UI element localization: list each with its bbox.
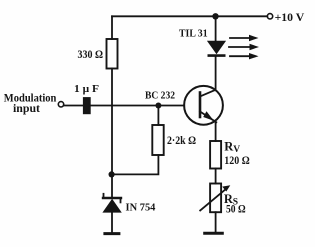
- transistor Q1 BC232: [184, 86, 223, 125]
- wire: RV bottom to RS top: [215, 169, 217, 184]
- svg-text:120 Ω: 120 Ω: [224, 155, 249, 167]
- resistor R1 330 ohm body: [107, 39, 118, 69]
- wire: C1 to Q1 base: [90, 105, 184, 107]
- svg-text:TIL 31: TIL 31: [179, 28, 208, 40]
- wire: Q1 emitter down to RV: [215, 122, 217, 141]
- wire: R2 top to base node: [157, 106, 159, 126]
- wire: LED anode to top rail junction: [215, 16, 217, 41]
- light emission arrow 3: [230, 53, 259, 59]
- wire: Q1 collector up to LED: [215, 56, 217, 90]
- wire: +10V top rail: [112, 15, 267, 17]
- svg-text:input: input: [13, 103, 40, 115]
- variable resistor RS: [200, 184, 230, 213]
- wire: R2 bottom around to zener junction: [112, 155, 159, 174]
- capacitor C1 1uF body: [84, 98, 90, 113]
- svg-text:1 μ F: 1 μ F: [74, 83, 99, 95]
- zener diode D2 1N754: [102, 194, 121, 213]
- LED D1 TIL31: [207, 41, 226, 56]
- junction: base node to R2: [155, 103, 161, 109]
- light emission arrow 2: [229, 44, 259, 50]
- wire: rail corner down to R1 top: [111, 16, 113, 39]
- wire: R1 bottom to base node: [111, 69, 113, 106]
- wire: input terminal to C1: [64, 105, 84, 107]
- svg-text:330 Ω: 330 Ω: [78, 49, 104, 61]
- junction: rail / LED branch: [212, 13, 218, 19]
- ground (emitter branch): [205, 232, 223, 235]
- svg-text:+10 V: +10 V: [275, 10, 305, 24]
- terminal: modulation input: [58, 102, 63, 107]
- svg-text:50 Ω: 50 Ω: [226, 203, 246, 215]
- wire: base node down to zener junction: [111, 106, 113, 175]
- wire: RS bottom to ground: [215, 212, 217, 232]
- light emission arrow 1: [230, 35, 259, 41]
- resistor RV body: [210, 141, 221, 169]
- resistor R2 2.2k body: [152, 125, 163, 155]
- svg-text:IN 754: IN 754: [126, 203, 157, 214]
- wire: D2 anode to ground: [111, 213, 113, 233]
- wire: junction down to zener D2: [111, 174, 113, 198]
- svg-text:V: V: [233, 145, 240, 155]
- ground (zener branch): [105, 232, 119, 235]
- terminal: +10V supply: [267, 14, 272, 19]
- junction: zener / R2 bottom node: [109, 171, 115, 177]
- svg-text:BC 232: BC 232: [145, 90, 175, 102]
- svg-text:2·2k Ω: 2·2k Ω: [167, 135, 196, 147]
